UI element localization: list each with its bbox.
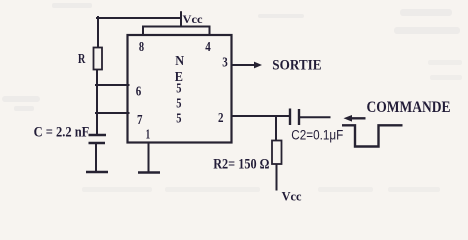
- svg-text:5: 5: [176, 111, 181, 126]
- svg-text:Vcc: Vcc: [282, 189, 302, 203]
- svg-text:Vcc: Vcc: [183, 14, 203, 26]
- svg-text:COMMANDE: COMMANDE: [367, 99, 451, 116]
- svg-text:8: 8: [139, 39, 144, 54]
- resistor R2: [272, 141, 282, 165]
- svg-text:5: 5: [176, 96, 181, 111]
- svg-text:C = 2.2 nF: C = 2.2 nF: [34, 125, 90, 141]
- svg-text:C2=0.1μF: C2=0.1μF: [291, 127, 343, 142]
- wire: pin 7: [96, 112, 129, 114]
- wire: command arrow (points left): [349, 117, 366, 119]
- svg-text:7: 7: [137, 112, 143, 127]
- capacitor C1 (C = 2.2 nF) plates: [89, 134, 107, 136]
- wire: pin 6: [96, 84, 129, 86]
- wire: R2 bottom lead to Vcc: [276, 164, 278, 190]
- wire: left drop to resistor R: [97, 17, 99, 48]
- svg-text:6: 6: [136, 84, 142, 99]
- node Vcc tick: [180, 12, 182, 26]
- resistor R1 (R): [94, 48, 103, 70]
- wire: Vcc top rail: [97, 17, 181, 19]
- wire: C2 right lead: [300, 116, 330, 118]
- wire: pin 3 output with arrow: [233, 64, 257, 66]
- svg-text:R2= 150 Ω: R2= 150 Ω: [213, 157, 269, 173]
- wire: pin 2 to C2: [233, 115, 289, 117]
- svg-text:2: 2: [218, 110, 224, 125]
- svg-text:R: R: [78, 51, 86, 66]
- wire: capacitor C lower lead: [95, 143, 97, 171]
- wire: R bottom to pin7/cap vertical: [96, 70, 98, 136]
- capacitor C2 plates: [289, 109, 291, 126]
- svg-text:N: N: [175, 54, 184, 69]
- faint scan artifacts (decorative): [2, 3, 460, 111]
- svg-text:3: 3: [222, 54, 228, 69]
- ground (below pin 1): [138, 171, 160, 174]
- op-amp U1: NE555 IC body: [128, 35, 232, 143]
- svg-text:1: 1: [146, 126, 151, 141]
- svg-text:SORTIE: SORTIE: [272, 57, 321, 73]
- svg-text:4: 4: [205, 39, 211, 54]
- svg-text:5: 5: [176, 82, 181, 97]
- ground (below C): [86, 171, 108, 174]
- wire: junction drop to R2: [275, 116, 277, 141]
- wire: command pulse waveform: [342, 125, 403, 146]
- wire: pin 1 lead: [148, 143, 150, 171]
- wire: Vcc bracket to pins 8 and 4: [143, 27, 210, 36]
